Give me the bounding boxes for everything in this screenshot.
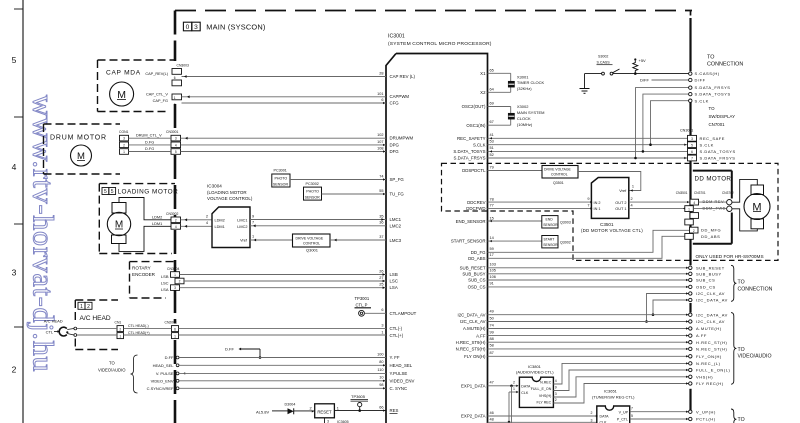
svg-text:4: 4 [693,201,695,205]
svg-text:87: 87 [490,351,494,355]
svg-text:PC3001: PC3001 [274,169,287,173]
svg-text:3: 3 [327,419,329,423]
svg-text:N.REC_(L): N.REC_(L) [696,361,721,366]
svg-text:A.MUTE(H): A.MUTE(H) [463,326,486,331]
svg-text:EXP2_DATA: EXP2_DATA [461,414,486,419]
wire CAP_REV(L) to IC3001 pin 28 [182,76,387,78]
svg-text:HEAD_SEL: HEAD_SEL [153,363,175,368]
svg-text:VHS(H): VHS(H) [696,374,713,379]
svg-text:1: 1 [119,334,121,338]
svg-text:START_SENSOR: START_SENSOR [451,239,486,244]
svg-text:I2C_CLK_AV: I2C_CLK_AV [696,291,725,296]
svg-text:D3004: D3004 [285,403,296,407]
svg-text:DD_ABS: DD_ABS [468,256,485,261]
svg-text:37: 37 [379,235,383,239]
svg-text:VIDEO/AUDIO: VIDEO/AUDIO [98,368,126,373]
svg-text:DRUM_CTL_V: DRUM_CTL_V [136,134,162,138]
wire DDCREV to C3501 IN2 pin 9 [488,201,592,203]
svg-text:66: 66 [379,405,383,409]
svg-text:LMC3: LMC3 [390,238,402,243]
svg-text:1: 1 [123,150,125,154]
svg-text:28: 28 [379,72,383,76]
svg-text:2: 2 [174,103,176,107]
svg-text:S.DATA_FRSYS: S.DATA_FRSYS [700,156,736,161]
wire RESET to IC3001 pin 66 RES [334,410,386,412]
svg-text:S.CLK: S.CLK [695,98,709,103]
svg-text:Q3501: Q3501 [553,181,564,185]
svg-text:CTL: CTL [46,329,54,334]
svg-text:PHOTO: PHOTO [306,190,319,194]
svg-text:(32KHz): (32KHz) [517,86,532,91]
svg-text:99: 99 [490,330,494,334]
svg-text:0: 0 [186,24,190,31]
svg-text:CN3701: CN3701 [694,191,706,195]
svg-text:LSA: LSA [390,285,398,290]
svg-text:V_UP(H): V_UP(H) [696,409,716,414]
svg-text:END_SENSOR: END_SENSOR [456,219,486,224]
wire VHS(H) to terminal [553,377,688,397]
svg-text:LSB: LSB [390,272,398,277]
wire V_UP(H) to terminal [630,411,689,413]
svg-text:OSD_CS: OSD_CS [696,285,716,290]
svg-text:58: 58 [490,344,494,348]
svg-text:Vref: Vref [619,189,627,193]
svg-text:D.FG: D.FG [145,140,154,144]
svg-text:107: 107 [377,140,383,144]
wire OSD_CS to connection terminal [488,286,689,288]
svg-text:CN7001: CN7001 [709,122,726,127]
svg-text:X3002: X3002 [517,104,529,109]
svg-text:H.REC_ST(H): H.REC_ST(H) [696,340,728,345]
svg-text:PCTL(H): PCTL(H) [696,417,716,422]
wire END_SENSOR to Q3003 [488,220,542,222]
svg-text:FULL_E_ON(L): FULL_E_ON(L) [696,368,731,373]
wire CAP_FG to IC3001 pin 6 [182,102,387,104]
svg-text:LDM2: LDM2 [215,218,225,222]
svg-text:CN3001: CN3001 [166,130,179,134]
svg-text:27: 27 [379,276,383,280]
pin box DD_ABS [685,234,694,240]
block Q3501 drive voltage control [542,166,578,179]
svg-text:SUB_BUSY: SUB_BUSY [462,272,485,277]
svg-text:17: 17 [490,253,494,257]
svg-text:4: 4 [175,225,177,229]
wire S.CLK top terminal [651,101,689,145]
svg-text:END: END [546,218,554,222]
svg-text:52: 52 [490,153,494,157]
svg-text:1: 1 [174,334,176,338]
svg-text:2: 2 [12,365,17,375]
svg-text:DRIVE VOLTAGE: DRIVE VOLTAGE [296,236,324,240]
svg-text:VOLTAGE CONTROL): VOLTAGE CONTROL) [207,196,253,201]
svg-text:77: 77 [490,203,494,207]
wire LSB to IC3001 pin 26 [180,274,387,276]
svg-text:I2C_DATA_AV: I2C_DATA_AV [457,312,485,317]
svg-text:101: 101 [377,92,383,96]
svg-text:6: 6 [174,327,176,331]
op IC3001 system control micro processor outline [386,54,488,423]
DRUM MOTOR dashed box [44,123,121,125]
svg-text:1: 1 [174,273,176,277]
wire S.CLK to CN3011 pin 5 [488,144,688,146]
svg-text:VIDEO_ENV: VIDEO_ENV [151,378,174,383]
svg-text:7: 7 [252,221,254,225]
svg-text:I2C_CLK_AV: I2C_CLK_AV [460,319,486,324]
svg-text:D/FF: D/FF [640,77,649,82]
wire DDSPDCTL to Q3501 [488,170,543,172]
crystal X3002 main system clock [488,106,511,108]
svg-text:9: 9 [252,214,254,218]
wire CTL HEAD(-) to IC3001 pin 3 [77,328,117,330]
motor M3 loading motor symbol [112,203,126,214]
svg-text:15: 15 [490,216,494,220]
svg-text:Vref: Vref [240,239,248,243]
svg-text:41: 41 [490,133,494,137]
svg-text:(DD MOTOR VOLTAGE CTL): (DD MOTOR VOLTAGE CTL) [581,228,643,233]
svg-text:49: 49 [490,310,494,314]
svg-text:CAP_FG: CAP_FG [153,99,168,103]
svg-text:A/C HEAD: A/C HEAD [80,315,111,322]
wire DDCFWD to C3501 IN1 pin 7 [488,207,592,209]
svg-text:CN3004: CN3004 [167,267,180,271]
svg-text:DDSPDCTL: DDSPDCTL [462,168,486,173]
svg-text:PC3002: PC3002 [306,182,319,186]
svg-text:100: 100 [377,352,383,356]
svg-text:H.REC_ST9(H): H.REC_ST9(H) [456,340,486,345]
svg-text:LDM1: LDM1 [215,225,225,229]
wire START_SENSOR to Q3002 [488,240,542,242]
svg-text:VIDEO/AUDIO: VIDEO/AUDIO [738,354,772,360]
wire I2C_DATA_AV upper terminal [653,300,689,315]
svg-text:CN3011: CN3011 [680,129,693,133]
wire S.CASS(H) to terminal [613,73,689,75]
bracket TO VIDEO/AUDIO left [131,355,138,393]
svg-text:S.DATA_TOSYS: S.DATA_TOSYS [453,149,485,154]
svg-text:2: 2 [631,197,633,201]
svg-text:VIDEO_ENV: VIDEO_ENV [390,378,415,383]
wire loading motor lead LDM2 [119,198,171,220]
svg-text:IN 2: IN 2 [594,201,601,205]
wire I2C_CLK_AV to video/audio terminal [488,321,689,323]
wire FLY REC to terminal [553,384,688,404]
svg-text:DDCFWD: DDCFWD [466,206,485,211]
svg-text:TO: TO [738,279,745,285]
svg-text:EXP1_DATA: EXP1_DATA [461,384,486,389]
op IC3801 audio/video control outline [519,377,553,407]
svg-text:DPG: DPG [390,142,400,147]
block RESET IC3605 [315,404,335,418]
svg-text:DRUM MOTOR: DRUM MOTOR [50,135,107,142]
svg-text:N.REC_ST(H): N.REC_ST(H) [696,347,728,352]
svg-text:6: 6 [381,308,383,312]
header digit boxes 1 2 [78,302,85,309]
wire S.DATA_FRSYS to CN3011 pin 7 [488,157,688,159]
svg-text:FLY_ON(H): FLY_ON(H) [696,354,722,359]
svg-text:2: 2 [513,381,515,385]
svg-text:TIMER CLOCK: TIMER CLOCK [517,80,545,85]
svg-text:2: 2 [555,398,557,402]
svg-text:I2C_DATA_AV: I2C_DATA_AV [696,312,728,317]
svg-text:V_UP: V_UP [619,410,629,414]
svg-text:3: 3 [194,24,198,31]
wire LSA to IC3001 pin 25 [180,287,387,289]
wire S.DATA_TOSYS top terminal [643,94,689,151]
svg-text:S.DATA_TOSYS: S.DATA_TOSYS [700,149,736,154]
svg-text:OUT 2: OUT 2 [615,201,626,205]
svg-text:CTL.P: CTL.P [356,302,368,307]
svg-text:A.FF: A.FF [476,333,486,338]
svg-text:106: 106 [490,275,496,279]
svg-text:LMC2: LMC2 [390,223,402,228]
svg-text:A.MUTE(H): A.MUTE(H) [696,326,722,331]
op C3501 DD motor voltage control outline [591,178,628,219]
svg-text:RESET: RESET [317,409,332,414]
wire EXP_CLK branch to IC3801 CLK [509,391,517,393]
svg-text:6: 6 [174,76,176,80]
svg-text:5: 5 [631,414,633,418]
ROTARY ENCODER dashed box [130,261,176,263]
svg-text:108: 108 [377,146,383,150]
svg-text:DD MOTOR: DD MOTOR [695,175,732,182]
svg-text:110: 110 [377,368,383,372]
svg-text:1: 1 [513,387,515,391]
wire switch to ground [585,73,602,75]
svg-text:ROTARY: ROTARY [132,266,151,271]
svg-text:69: 69 [490,102,494,106]
svg-text:A/C HEAD: A/C HEAD [44,319,63,324]
wire Vref drive voltage control chain to IC3001 pin 37 [250,239,293,241]
svg-text:TP3605: TP3605 [351,394,366,399]
wire PC3001 to IC3001 pin 74 SP_FG [290,179,386,181]
svg-text:S.DATA_FRSYS: S.DATA_FRSYS [695,85,731,90]
svg-text:CN3003: CN3003 [177,64,190,68]
svg-text:SP_FG: SP_FG [390,177,405,182]
wire FULL_E_ON to terminal [553,370,688,391]
head terminals [74,327,77,330]
dashed box ONLY USED FOR HR-S9700MS [442,163,779,260]
svg-text:S.CLK: S.CLK [700,142,714,147]
svg-text:TO: TO [738,347,745,353]
svg-text:25: 25 [379,283,383,287]
wire D.FG to IC3001 pin 108 [129,151,172,153]
wire OUT1 to DDM FWD [629,207,685,209]
svg-text:IN 1: IN 1 [594,207,601,211]
svg-text:2: 2 [119,327,121,331]
wire DD_ABS to DD motor [488,236,685,258]
svg-text:CAP MDA: CAP MDA [106,70,141,77]
svg-text:65: 65 [490,68,494,72]
svg-text:5: 5 [104,189,107,195]
svg-text:Y. FF: Y. FF [390,355,400,360]
svg-text:FLY ON(H): FLY ON(H) [464,354,486,359]
svg-text:DD_FG: DD_FG [471,250,486,255]
svg-text:7: 7 [631,407,633,411]
wire SUB_CS to connection terminal [488,279,689,281]
crystal X3001 timer clock [488,72,511,74]
svg-text:47: 47 [490,381,494,385]
svg-text:CTLAMPOUT: CTLAMPOUT [390,311,417,316]
head symbol [59,327,67,336]
svg-text:48: 48 [490,418,494,422]
svg-text:OSC1(IN): OSC1(IN) [466,123,486,128]
svg-text:DD_MFG: DD_MFG [701,228,721,233]
svg-text:LMC1: LMC1 [390,217,402,222]
svg-text:SW/DISPLAY: SW/DISPLAY [709,114,736,119]
svg-text:I2C_CLK_AV: I2C_CLK_AV [696,319,725,324]
wire D.FG to IC3001 pin 107 [129,144,172,146]
svg-text:CN2001: CN2001 [165,321,178,325]
svg-text:START: START [544,237,555,241]
svg-text:5: 5 [111,189,114,195]
svg-text:3: 3 [12,268,17,278]
svg-text:TO: TO [109,361,115,366]
svg-text:C.SYNC/VREF: C.SYNC/VREF [147,386,174,391]
svg-text:1: 1 [688,207,690,211]
wire LMC2 IC3004 pin 7 to IC3001 pin 36 [250,225,386,227]
svg-text:TO: TO [738,417,745,423]
wire DD_FG to DD_MFG [488,230,690,252]
svg-text:SENSOR: SENSOR [305,196,321,200]
svg-text:N.REC: N.REC [540,381,552,385]
wire EXP_CLK to IC3651 [488,421,597,423]
svg-text:ONLY USED FOR HR-S9700MS: ONLY USED FOR HR-S9700MS [696,254,764,259]
wire LSC to IC3001 pin 27 [184,280,386,282]
svg-text:CLOCK: CLOCK [517,116,531,121]
svg-text:2: 2 [310,406,312,410]
svg-text:59: 59 [490,247,494,251]
svg-text:SUB_BUSY: SUB_BUSY [696,271,722,276]
bracket TO VIDEO/AUDIO right [731,313,736,385]
svg-text:OUT 1: OUT 1 [615,207,626,211]
svg-text:TO: TO [707,55,714,61]
svg-text:SENSOR: SENSOR [543,223,558,227]
wire OUT2 to DDM REV [629,201,690,203]
svg-text:ENCODER: ENCODER [132,272,156,277]
svg-text:67: 67 [490,120,494,124]
svg-text:10: 10 [379,376,383,380]
wire EXP2_DATA to IC3651 [488,415,597,417]
svg-text:TO: TO [709,106,716,111]
wire RESET pin 3 down [324,418,326,423]
svg-text:X1: X1 [480,71,486,76]
wire LDM2 to IC3004 pin 2 [181,219,213,221]
wire H.REC_ST9(H) to video/audio terminal [488,341,689,343]
svg-text:FULL_E_ON: FULL_E_ON [531,387,552,391]
svg-text:91: 91 [490,282,494,286]
svg-text:5: 5 [691,143,693,147]
wire CAP_CTL_V to IC3001 pin 101 [182,96,387,98]
svg-text:2: 2 [206,215,208,219]
svg-text:CLK: CLK [521,391,529,395]
svg-text:3: 3 [174,286,176,290]
svg-text:3: 3 [123,137,125,141]
svg-text:Q3002: Q3002 [560,240,571,244]
svg-text:(AUDIO/VIDEO CTL): (AUDIO/VIDEO CTL) [516,370,554,375]
svg-text:105: 105 [490,269,496,273]
wire FLY ON(H) to video/audio terminal [488,355,689,357]
wire CTL HEAD(+) to IC3001 pin 1 [77,334,117,336]
svg-text:6: 6 [691,150,693,154]
wire S.DATA_FRSYS top terminal [636,88,689,158]
svg-text:LSC: LSC [161,280,169,285]
svg-text:DRIVE VOLTAGE: DRIVE VOLTAGE [544,168,572,172]
svg-text:REC_SAFETY: REC_SAFETY [457,136,486,141]
svg-text:51: 51 [490,146,494,150]
svg-text:(TUNER/SW REG CTL): (TUNER/SW REG CTL) [592,394,635,399]
svg-text:CAPPWM: CAPPWM [390,94,410,99]
wire I2C_DATA_AV to video/audio terminal [488,314,689,316]
svg-text:TP3001: TP3001 [355,296,370,301]
header box digit 0 [183,22,191,31]
svg-text:2: 2 [87,304,90,310]
svg-text:CFG: CFG [390,101,400,106]
svg-text:9: 9 [555,386,557,390]
border tick marks [14,8,23,10]
svg-text:A.FF: A.FF [696,333,707,338]
bracket TO CONNECTION right [731,265,736,301]
svg-text:S.CASS(H): S.CASS(H) [695,71,720,76]
svg-text:X3001: X3001 [517,74,529,79]
svg-text:98: 98 [379,383,383,387]
svg-text:80: 80 [379,360,383,364]
wire TP3001 to IC3001 pin 6 CTLAMPOUT [364,312,386,314]
svg-text:4: 4 [12,162,17,172]
svg-text:CN3002: CN3002 [166,212,179,216]
svg-text:N.REC_ST9(H): N.REC_ST9(H) [456,347,486,352]
wire I2C_CLK_AV upper terminal [647,294,689,322]
svg-text:REC_SAFE: REC_SAFE [700,136,726,141]
wire REC_SAFETY to CN3011 pin 3 [488,137,688,139]
svg-text:CAP_CTL_V: CAP_CTL_V [146,93,168,97]
svg-text:CTL HEAD(-): CTL HEAD(-) [128,324,149,328]
svg-text:VHS(H): VHS(H) [539,394,551,398]
svg-text:50: 50 [490,316,494,320]
wire SUB_RESET to connection terminal [488,267,689,269]
svg-text:SUB_CS: SUB_CS [468,278,485,283]
svg-text:1: 1 [174,96,176,100]
svg-text:HEAD_SEL: HEAD_SEL [390,363,413,368]
svg-text:26: 26 [379,269,383,273]
wire loading motor lead LDM1 [119,226,171,251]
svg-text:CN1: CN1 [115,321,122,325]
svg-text:DFG: DFG [390,149,400,154]
MAIN SYSCON block right border (bus) [690,11,692,19]
svg-text:7: 7 [587,203,589,207]
svg-text:SUB_RESET: SUB_RESET [696,265,725,270]
svg-text:3: 3 [175,137,177,141]
wire PCTL(H) to terminal [630,418,689,420]
svg-text:IC3801: IC3801 [528,364,542,369]
svg-text:102: 102 [377,133,383,137]
svg-text:9: 9 [587,197,589,201]
wire LMC1 IC3004 pin 9 to IC3001 pin 35 [250,219,386,221]
svg-text:MAIN (SYSCON): MAIN (SYSCON) [206,23,265,32]
svg-text:AL5.8V: AL5.8V [256,409,269,414]
wire SUB_BUSY to connection terminal [488,273,689,275]
svg-text:DRUMPWM: DRUMPWM [390,136,414,141]
svg-text:3: 3 [591,418,593,422]
svg-text:LMC1: LMC1 [237,218,247,222]
pin box DD_MFG [690,227,699,233]
op IC3651 tuner/sw reg control outline [597,406,630,423]
svg-text:1: 1 [337,406,339,410]
wire A.FF to video/audio terminal [488,335,689,337]
op IC3004 loading motor voltage control outline [212,207,250,248]
CAP MDA dashed box [98,59,176,61]
svg-text:DATA: DATA [521,385,531,389]
svg-text:OSC2(OUT): OSC2(OUT) [462,104,486,109]
wire EXP1_DATA to IC3801 DATA pin 2 [488,385,518,387]
